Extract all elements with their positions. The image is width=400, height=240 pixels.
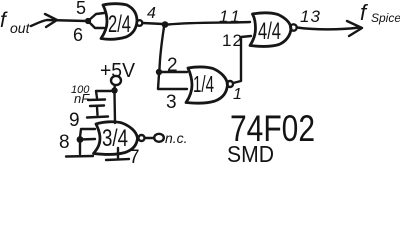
node f_spice label bbox=[360, 0, 400, 25]
svg-text:7: 7 bbox=[129, 147, 140, 164]
wire gate U1 output up to gate U4 pin 12 bbox=[233, 36, 251, 83]
gate U1 (NOR 1/4) bbox=[186, 67, 228, 103]
wire node 4 to gate U4 pin 11 bbox=[168, 22, 250, 25]
wire junction 8/9 to ground bbox=[79, 142, 81, 154]
svg-text:12: 12 bbox=[222, 31, 243, 50]
pin 1 label bbox=[233, 86, 242, 103]
capacitor C1 value label 100nF bbox=[71, 84, 90, 106]
wire gate U4 output to f_spice bbox=[297, 28, 359, 30]
svg-text:4: 4 bbox=[147, 5, 156, 22]
pin 9 label bbox=[69, 110, 80, 131]
pin 2 label bbox=[167, 55, 178, 76]
gate U2 (NOR 2/4) bbox=[101, 4, 137, 40]
node f_out label bbox=[0, 9, 31, 36]
pin 11 label bbox=[219, 7, 243, 26]
gate U4 label 4/4 bbox=[258, 18, 281, 45]
svg-text:6: 6 bbox=[73, 25, 83, 45]
power +5V terminal circle bbox=[111, 76, 121, 85]
pin 5 label bbox=[76, 0, 86, 18]
svg-text:3/4: 3/4 bbox=[102, 125, 128, 152]
node junction input pins 5/6 bbox=[85, 18, 91, 24]
capacitor C1 top plate bbox=[88, 98, 105, 101]
svg-text:13: 13 bbox=[300, 7, 321, 26]
gate U1 output bubble bbox=[227, 81, 233, 87]
wire pin 8 stub bbox=[80, 138, 95, 141]
gate U3 label 3/4 bbox=[102, 125, 128, 152]
wire +5V rail down to gate U3 VCC pin 14 bbox=[113, 93, 116, 123]
svg-text:9: 9 bbox=[69, 110, 80, 131]
gate U1 label 1/4 bbox=[193, 71, 214, 97]
wire pin 5 stub bbox=[88, 13, 104, 21]
package label SMD bbox=[227, 141, 274, 167]
svg-text:4/4: 4/4 bbox=[258, 18, 281, 45]
gate U2 output bubble bbox=[137, 20, 143, 26]
svg-text:Spice: Spice bbox=[371, 11, 400, 25]
ground pin 7 bbox=[106, 159, 129, 160]
pin 6 label bbox=[73, 25, 83, 45]
node junction pins 8/9 bbox=[77, 136, 84, 143]
wire arrowhead f_spice bbox=[347, 21, 362, 36]
svg-text:nF: nF bbox=[74, 91, 90, 106]
wire gate U3 output to n.c. bbox=[145, 137, 153, 139]
svg-text:2/4: 2/4 bbox=[108, 11, 131, 38]
wire gate U3 GND pin 7 bbox=[117, 148, 119, 158]
gate U4 (NOR 4/4) bbox=[250, 13, 291, 47]
wire +5V terminal to rail junction bbox=[113, 85, 116, 88]
power +5V label bbox=[100, 60, 136, 82]
wire pin 2 stub bbox=[159, 71, 187, 73]
pin 4 label bbox=[147, 5, 156, 22]
svg-text:+5V: +5V bbox=[100, 60, 136, 82]
svg-text:11: 11 bbox=[219, 7, 243, 26]
svg-text:1: 1 bbox=[233, 86, 242, 103]
part number label 74F02 bbox=[230, 108, 315, 149]
wire junction to capacitor C1 bbox=[96, 91, 111, 98]
node junction pins 2/3 bbox=[156, 69, 162, 75]
gate U4 output bubble bbox=[290, 24, 296, 30]
svg-text:out: out bbox=[10, 20, 31, 36]
label n.c. bbox=[165, 130, 188, 146]
pin 8 label bbox=[59, 132, 70, 153]
node +5V rail junction bbox=[111, 87, 117, 93]
wire pin 3 stub bbox=[158, 74, 187, 89]
wire pin 6 stub bbox=[88, 21, 104, 28]
svg-text:5: 5 bbox=[76, 0, 86, 18]
svg-text:1/4: 1/4 bbox=[193, 71, 214, 97]
gate U3 (NOR 3/4) bbox=[94, 122, 138, 155]
wire gate U2 output to node 4 bbox=[143, 23, 163, 24]
svg-text:8: 8 bbox=[59, 132, 70, 153]
wire pin 9 stub bbox=[80, 129, 95, 137]
node 4 junction bbox=[162, 21, 169, 28]
svg-text:3: 3 bbox=[166, 92, 177, 113]
svg-text:n.c.: n.c. bbox=[165, 130, 188, 146]
pin 3 label bbox=[166, 92, 177, 113]
capacitor C1 bottom plate bbox=[90, 104, 104, 107]
pin 12 label bbox=[222, 31, 243, 50]
ground under pins 8/9 bbox=[66, 155, 93, 158]
gate U2 label 2/4 bbox=[108, 11, 131, 38]
pin 7 label bbox=[129, 147, 140, 168]
no-connect open circle bbox=[154, 134, 164, 142]
wire node 4 down to node 2/3 junction bbox=[160, 27, 165, 69]
wire arrowhead bbox=[45, 14, 57, 27]
gate U3 output bubble bbox=[139, 135, 145, 141]
svg-text:SMD: SMD bbox=[227, 141, 274, 164]
ground under capacitor C1 bbox=[87, 117, 108, 118]
wire f_out to gate U2 input bbox=[31, 20, 86, 26]
wire capacitor C1 to ground bbox=[96, 107, 99, 115]
pin 13 label bbox=[300, 7, 321, 26]
